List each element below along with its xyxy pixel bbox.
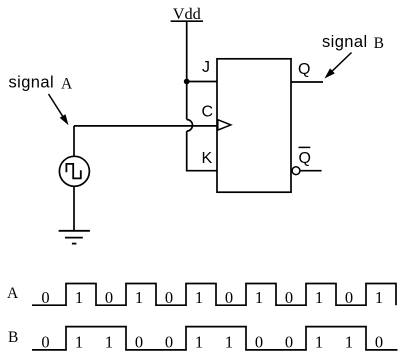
svg-text:0: 0 [165,333,173,352]
svg-text:B: B [374,35,384,52]
svg-text:0: 0 [375,333,383,352]
waveform A values [41,288,383,307]
wire Vdd vertical lower [187,131,217,171]
wire source to ground [73,186,75,231]
svg-text:K: K [202,150,213,167]
svg-text:B: B [8,329,18,346]
svg-text:0: 0 [255,333,263,352]
svg-text:1: 1 [135,288,143,307]
svg-text:1: 1 [255,288,263,307]
svg-text:0: 0 [225,288,233,307]
svg-text:1: 1 [75,333,83,352]
waveform B values [41,333,383,352]
wire Q-bar output [300,170,322,172]
svg-text:0: 0 [41,333,49,352]
svg-text:0: 0 [41,288,49,307]
arrow signal A [49,94,69,125]
svg-text:1: 1 [195,333,203,352]
waveform B trace [32,327,398,350]
svg-text:A: A [7,285,19,302]
wire signal A vertical to source [73,126,75,157]
svg-text:C: C [202,104,214,121]
pin label Q-bar overbar [299,146,311,148]
svg-text:A: A [61,76,73,93]
svg-text:Q: Q [299,150,311,167]
svg-text:1: 1 [315,288,323,307]
flip-flop U1 body [217,59,291,192]
inversion bubble Q-bar [292,167,300,175]
svg-text:J: J [202,59,210,76]
ground [59,231,90,244]
svg-text:signal: signal [9,74,55,92]
source V1 pulse generator circle [59,156,89,186]
wire signal A horizontal to C input [74,125,217,127]
wire J input [187,81,217,83]
arrow signal B [325,53,352,79]
svg-text:signal: signal [322,33,368,51]
svg-text:1: 1 [225,333,233,352]
power Vdd rail bar [171,20,203,22]
svg-text:0: 0 [135,333,143,352]
svg-text:1: 1 [375,288,383,307]
svg-text:0: 0 [345,288,353,307]
svg-text:0: 0 [285,333,293,352]
svg-text:1: 1 [105,333,113,352]
svg-text:1: 1 [75,288,83,307]
svg-text:1: 1 [345,333,353,352]
wire Q output [291,81,323,83]
svg-text:Vdd: Vdd [173,4,201,23]
svg-text:0: 0 [165,288,173,307]
clock input triangle [218,120,231,130]
svg-text:0: 0 [105,288,113,307]
junction dot [184,79,190,85]
svg-text:1: 1 [195,288,203,307]
waveform A trace [32,284,396,306]
svg-text:0: 0 [285,288,293,307]
svg-text:Q: Q [298,61,310,78]
svg-text:1: 1 [315,333,323,352]
source V1 pulse symbol [66,164,80,179]
wire crossover hop [187,120,193,132]
wire Vdd vertical upper [186,21,188,119]
